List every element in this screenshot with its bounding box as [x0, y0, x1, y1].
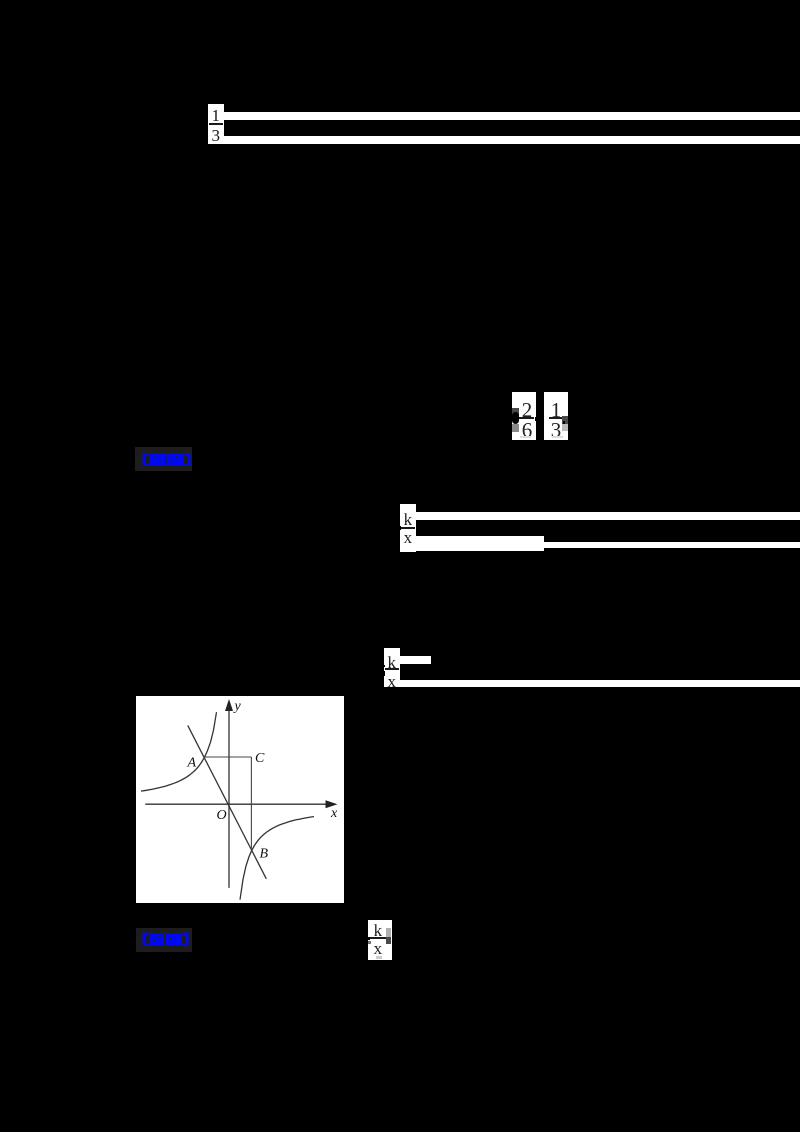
blue label 1 (answer tag) — [135, 447, 192, 471]
fraction k/x third — [368, 920, 392, 960]
fraction k/x first — [400, 504, 416, 552]
bar right of first k/x (top) — [416, 512, 800, 520]
svg-text:y: y — [232, 699, 241, 714]
arrowheads — [225, 699, 233, 711]
labels — [186, 699, 338, 862]
long bar under second k/x line — [400, 680, 800, 688]
blue label 2 (analysis tag) — [136, 928, 192, 952]
x axis — [145, 803, 333, 805]
svg-text:A: A — [186, 755, 196, 770]
graph panel — [136, 696, 344, 903]
hyperbola upper — [141, 712, 217, 791]
y axis — [228, 705, 230, 888]
svg-text:C: C — [255, 751, 265, 766]
hyperbola lower — [240, 816, 314, 899]
artifacts right of 1/3 — [562, 416, 568, 425]
top white bar 2 — [224, 136, 800, 144]
rect C-B — [250, 757, 252, 849]
svg-text:B: B — [259, 846, 268, 861]
line AB — [188, 725, 266, 878]
rect A-C — [204, 756, 251, 758]
fraction 1/3 top — [208, 104, 224, 144]
fraction k/x second — [384, 648, 400, 688]
equals marks between fractions — [535, 417, 538, 421]
artifacts left of 2/6 — [512, 408, 519, 416]
bar right of first k/x (bottom thick then thin) — [416, 536, 545, 552]
svg-text:x: x — [330, 806, 338, 821]
artifacts around third k/x — [365, 937, 371, 940]
fraction 2/6 — [512, 392, 537, 440]
top white bar 1 — [224, 112, 800, 120]
fraction 1/3 (second) — [544, 392, 568, 440]
short bar right of second k/x — [400, 656, 432, 664]
svg-text:O: O — [216, 808, 226, 823]
